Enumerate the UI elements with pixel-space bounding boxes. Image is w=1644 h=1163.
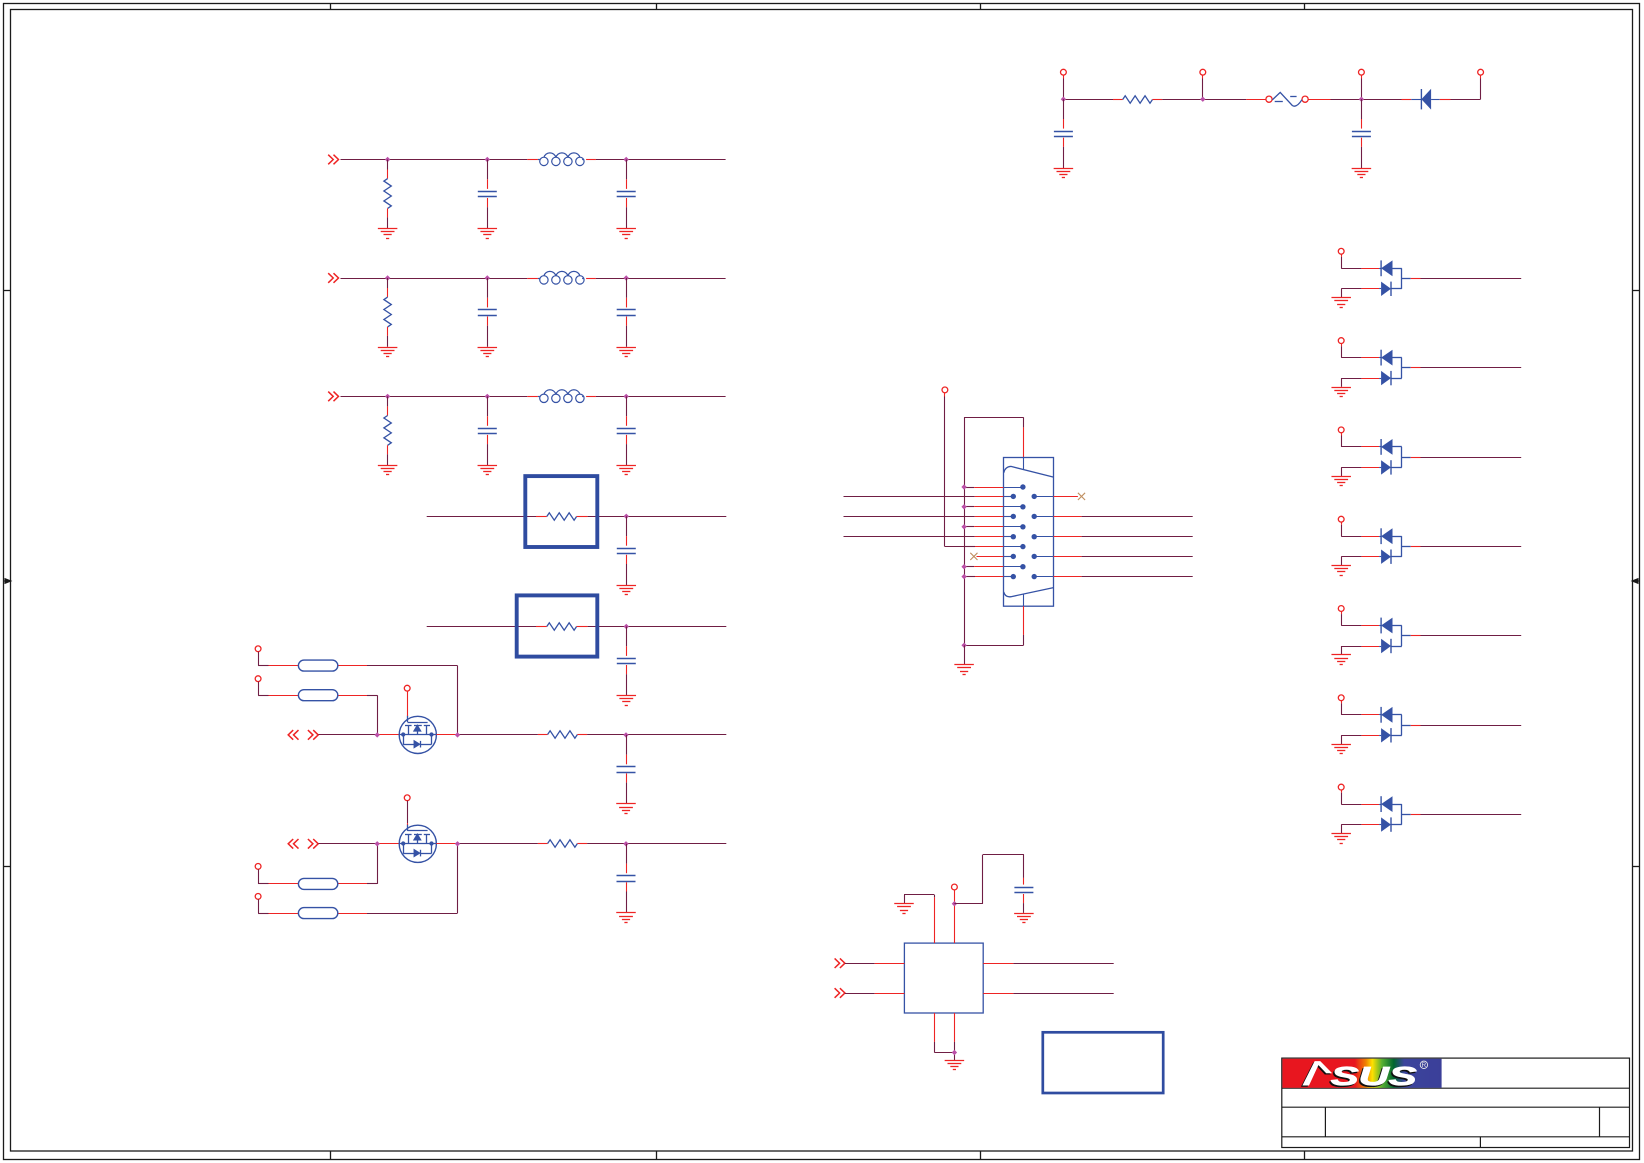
ground C10 ground (1054, 169, 1074, 178)
junction filter2 node A (385, 275, 390, 280)
port chevron U1 in2 (835, 988, 845, 998)
wire boxed row 2 left (427, 626, 547, 628)
port DP7 (1338, 784, 1344, 790)
ground C3a ground (478, 466, 498, 475)
junction filter2 node C (624, 275, 629, 280)
fuse F21 (298, 878, 337, 889)
ground R3 ground (378, 466, 398, 475)
junction filter1 node B (485, 157, 490, 162)
wire diode pair 5 input (1341, 611, 1381, 625)
wire diode pair 2 link (1391, 358, 1402, 379)
wire Q2 gate (407, 801, 409, 825)
pin 12 (1032, 554, 1037, 559)
port P3 (1359, 69, 1365, 75)
port PWR (952, 884, 958, 890)
capacitor C1a (478, 160, 497, 229)
wire PWR to C20 (954, 855, 1024, 904)
junction bus node 5 (961, 574, 966, 579)
wire port P3 drop (1361, 75, 1363, 99)
fuse F1 (1266, 92, 1308, 106)
wire D1 to P4 (1431, 99, 1481, 101)
junction boxed row 1 node (624, 514, 629, 519)
junction Q2 node L (375, 841, 380, 846)
ground DP7 (1331, 834, 1351, 844)
ground U1 bottom (945, 1061, 965, 1070)
ground CO1 ground (616, 804, 636, 814)
wire diode pair 6 ground leg (1341, 735, 1381, 744)
ASUS logo (1282, 1059, 1441, 1093)
wire net row 1 right (1034, 516, 1193, 518)
ground CB2 ground (617, 696, 637, 706)
wire Q1 drain rail (436, 734, 547, 736)
diode D5a (1381, 618, 1392, 634)
port chevron BD2a (288, 839, 298, 849)
diode D3b (1381, 460, 1391, 474)
wire fuse row Q2-2 (258, 844, 457, 914)
wire net row 2 left (844, 536, 1014, 538)
diode D3a (1381, 439, 1392, 455)
port chevron BD1a (288, 730, 298, 740)
port P2 (1200, 69, 1206, 75)
ground C2b ground (616, 348, 636, 357)
ground shield (954, 665, 974, 675)
diode D6b (1381, 728, 1391, 742)
diode D1b (1381, 282, 1391, 296)
svg-text:R: R (1422, 1062, 1427, 1069)
component box U2 (525, 476, 597, 547)
capacitor CB1 (617, 516, 636, 585)
wire diode pair 7 output (1402, 814, 1521, 816)
wire diode pair 2 input (1341, 343, 1381, 357)
wire shell top pin (1023, 417, 1025, 469)
junction PWR node (952, 901, 957, 906)
junction filter2 node B (485, 275, 490, 280)
inductor L2 (538, 271, 584, 284)
wire U1 pin VDD (954, 890, 956, 943)
port JP11 (255, 646, 261, 652)
port DP1 (1338, 248, 1344, 254)
wire Q1 output (577, 734, 726, 736)
diode D7a (1381, 796, 1392, 812)
wire Q2 output (577, 843, 726, 845)
junction boxed row 2 node (624, 624, 629, 629)
port chevron IN1 (328, 155, 338, 165)
resistor RS2 (548, 840, 578, 847)
wire fuse row Q1-1 (258, 652, 457, 735)
pin 1 (1020, 484, 1025, 489)
resistor PR2 (547, 623, 577, 630)
port JP21 (255, 864, 261, 870)
ground C2a ground (478, 348, 498, 357)
wire diode pair 3 ground leg (1341, 467, 1381, 476)
wire rail segment R10 to F1 (1153, 99, 1266, 101)
wire shield bottom (964, 645, 1023, 647)
fuse F11 (298, 660, 337, 671)
wire U1 input 2 (845, 993, 905, 995)
port chevron U1 in1 (835, 958, 845, 968)
capacitor C10 (1054, 99, 1073, 168)
wire shield top (964, 417, 1023, 419)
wire diode pair 3 input (1341, 433, 1381, 447)
wire pin 3 stub (1034, 496, 1078, 498)
component box U3 (517, 595, 598, 656)
port P1 (1061, 69, 1067, 75)
junction Q2 node R (455, 841, 460, 846)
ground R1 ground (378, 229, 398, 239)
wire diode pair 1 link (1391, 268, 1402, 289)
pin 3 (1032, 494, 1037, 499)
junction bus node 1 (961, 504, 966, 509)
wire diode pair 4 input (1341, 522, 1381, 537)
junction filter3 node A (385, 394, 390, 399)
wire U1 output 2 (983, 993, 1113, 995)
svg-text:SUS: SUS (1331, 1061, 1418, 1091)
title block (1282, 1058, 1630, 1147)
pin 10 (1020, 544, 1025, 549)
junction N2 (1200, 97, 1205, 102)
diode D4a (1381, 528, 1392, 544)
wire pin 4 stub (964, 506, 1023, 508)
wire filter row 3 (341, 396, 726, 398)
wire diode pair 5 output (1402, 635, 1521, 637)
ground DP1 (1331, 298, 1351, 308)
wire diode pair 4 output (1402, 546, 1521, 548)
ground DP5 (1331, 655, 1351, 665)
wire Q1 gate (407, 691, 409, 716)
wire diode pair 6 link (1391, 715, 1402, 736)
wire U1 output 1 (983, 963, 1113, 965)
no-connect NC1 (970, 553, 977, 560)
wire net row 3 right (1034, 556, 1193, 558)
pin 5 (1011, 514, 1016, 519)
pin 2 (1011, 494, 1016, 499)
wire diode pair 5 link (1391, 626, 1402, 647)
ground C11 ground (1352, 169, 1372, 178)
ground C3b ground (616, 466, 636, 475)
port VCC (942, 387, 948, 393)
junction bus node 4 (961, 564, 966, 569)
no-connect NC2 (1078, 493, 1085, 500)
fuse F12 (298, 690, 337, 701)
pin 14 (1011, 574, 1016, 579)
capacitor C3b (617, 396, 636, 465)
capacitor C11 (1352, 99, 1371, 168)
junction filter1 node A (385, 157, 390, 162)
wire filter row 1 (341, 159, 726, 161)
junction bus node 0 (961, 484, 966, 489)
port DP2 (1338, 338, 1344, 344)
resistor R2 (384, 278, 391, 347)
port DP5 (1338, 606, 1344, 612)
wire port P1 drop (1063, 75, 1065, 99)
inductor L3 (538, 390, 584, 403)
wire pin 10 stub to VCC (964, 546, 1023, 548)
wire boxed row 2 right (577, 626, 727, 628)
wire diode pair 2 output (1402, 367, 1521, 369)
diode D7b (1381, 817, 1391, 831)
capacitor C3a (478, 396, 497, 465)
capacitor C20 (1014, 888, 1033, 913)
ground DP6 (1331, 745, 1351, 754)
transistor Q2 (P-MOSFET) (399, 825, 436, 863)
pin 13 (1020, 564, 1025, 569)
wire pin 1 stub (964, 487, 1023, 489)
wire boxed row 1 right (577, 516, 727, 518)
ground DP2 (1331, 388, 1351, 397)
diode D2a (1381, 350, 1392, 366)
wire diode pair 7 input (1341, 790, 1381, 805)
wire port P2 drop (1202, 75, 1204, 99)
pin 15 (1032, 574, 1037, 579)
inductor L1 (538, 153, 584, 166)
pin 11 (1011, 554, 1016, 559)
diode D1a (1381, 260, 1392, 276)
wire shield ground drop (964, 645, 966, 664)
junction bus node 2 (961, 524, 966, 529)
wire U1 pin GND2 (954, 1013, 956, 1042)
wire diode pair 2 ground leg (1341, 378, 1381, 387)
wire diode pair 3 link (1391, 447, 1402, 468)
port chevron IN3 (328, 392, 338, 402)
pin 4 (1020, 504, 1025, 509)
fuse F22 (298, 908, 337, 919)
port DP6 (1338, 695, 1344, 701)
junction N1 (1061, 97, 1066, 102)
capacitor C2b (617, 278, 636, 347)
ground CB1 ground (617, 586, 637, 595)
port JP12 (255, 676, 261, 682)
junction Q2 node O (623, 841, 628, 846)
wire boxed row 1 left (427, 516, 547, 518)
wire diode pair 1 input (1341, 254, 1381, 268)
resistor R10 (1123, 96, 1153, 103)
ground CO2 ground (616, 913, 636, 923)
wire net row 1 left (844, 516, 1014, 518)
diode D2b (1381, 371, 1391, 385)
wire filter row 2 (341, 278, 726, 280)
port P4 (1478, 69, 1484, 75)
capacitor CO2 (617, 844, 636, 913)
port DP4 (1338, 516, 1344, 522)
port chevron BD1b (308, 730, 318, 740)
wire port P4 drop (1480, 75, 1482, 99)
wire shield bus (964, 417, 966, 645)
wire rail segment P1 to R10 (1063, 99, 1122, 101)
wire Q2 drain rail (436, 843, 547, 845)
capacitor CO1 (617, 735, 636, 804)
wire pin 14 stub (964, 576, 1013, 578)
wire net row 2 right (1034, 536, 1193, 538)
wire VCC drop (945, 393, 965, 547)
resistor R1 (384, 160, 391, 229)
ground DP3 (1331, 477, 1351, 486)
connector J1 shell (1004, 458, 1054, 607)
ground C20 (1014, 914, 1034, 923)
pin 7 (1020, 524, 1025, 529)
IC U1 (904, 943, 983, 1013)
wire diode pair 7 link (1391, 804, 1402, 825)
port chevron IN2 (328, 273, 338, 283)
port chevron BD2b (308, 839, 318, 849)
ground R2 ground (378, 348, 398, 357)
pin 8 (1011, 534, 1016, 539)
wire diode pair 6 input (1341, 701, 1381, 715)
junction Q1 node R (455, 732, 460, 737)
wire U1 pin VSS (904, 895, 935, 944)
port G1 (404, 685, 410, 691)
note box (1043, 1032, 1163, 1093)
resistor RS1 (548, 731, 578, 738)
port DP3 (1338, 427, 1344, 433)
wire fuse row Q1-2 (258, 682, 377, 735)
wire diode pair 1 ground leg (1341, 289, 1381, 298)
wire fuse row Q2-1 (258, 844, 377, 884)
capacitor CB2 (617, 627, 636, 696)
port G2 (404, 795, 410, 801)
wire Q2 source rail (319, 843, 400, 845)
transistor Q1 (P-MOSFET) (399, 716, 436, 754)
pin 9 (1032, 534, 1037, 539)
wire net row 4 right (1034, 576, 1193, 578)
wire net row 0 left (844, 496, 1014, 498)
junction shield node (961, 643, 966, 648)
wire pin 13 stub (964, 566, 1023, 568)
diode D4b (1381, 550, 1391, 564)
wire pin 7 stub (964, 526, 1023, 528)
wire U1 input 1 (845, 963, 905, 965)
diode D6a (1381, 707, 1392, 723)
pin 6 (1032, 514, 1037, 519)
wire shell bottom pin (1023, 594, 1025, 645)
diode D5b (1381, 639, 1391, 653)
wire pin 11 stub (977, 556, 1014, 558)
wire U1 pin GND1 (934, 1013, 954, 1053)
wire diode pair 3 output (1402, 457, 1521, 459)
ground DP4 (1331, 566, 1351, 576)
wire diode pair 5 ground leg (1341, 646, 1381, 655)
junction filter1 node C (624, 157, 629, 162)
junction Q1 node O (623, 732, 628, 737)
wire diode pair 4 ground leg (1341, 557, 1381, 566)
port JP22 (255, 894, 261, 900)
wire U1 ground drop (954, 1042, 956, 1060)
ground C1b ground (616, 229, 636, 239)
capacitor C2a (478, 278, 497, 347)
wire diode pair 1 output (1402, 278, 1521, 280)
ground U1 left (894, 904, 914, 914)
capacitor C1b (617, 160, 636, 229)
junction filter3 node C (624, 394, 629, 399)
wire rail segment F1 to D1 (1308, 99, 1421, 101)
junction filter3 node B (485, 394, 490, 399)
wire Q1 source rail (319, 734, 400, 736)
junction U1 gnd node (952, 1050, 957, 1055)
ground C1a ground (478, 229, 498, 239)
wire diode pair 7 ground leg (1341, 825, 1381, 834)
resistor R3 (384, 396, 391, 465)
resistor PR1 (547, 513, 577, 520)
junction Q1 node L (375, 732, 380, 737)
junction N3 (1359, 97, 1364, 102)
diode D1 (1421, 89, 1431, 110)
wire diode pair 6 output (1402, 725, 1521, 727)
wire diode pair 4 link (1391, 536, 1402, 557)
